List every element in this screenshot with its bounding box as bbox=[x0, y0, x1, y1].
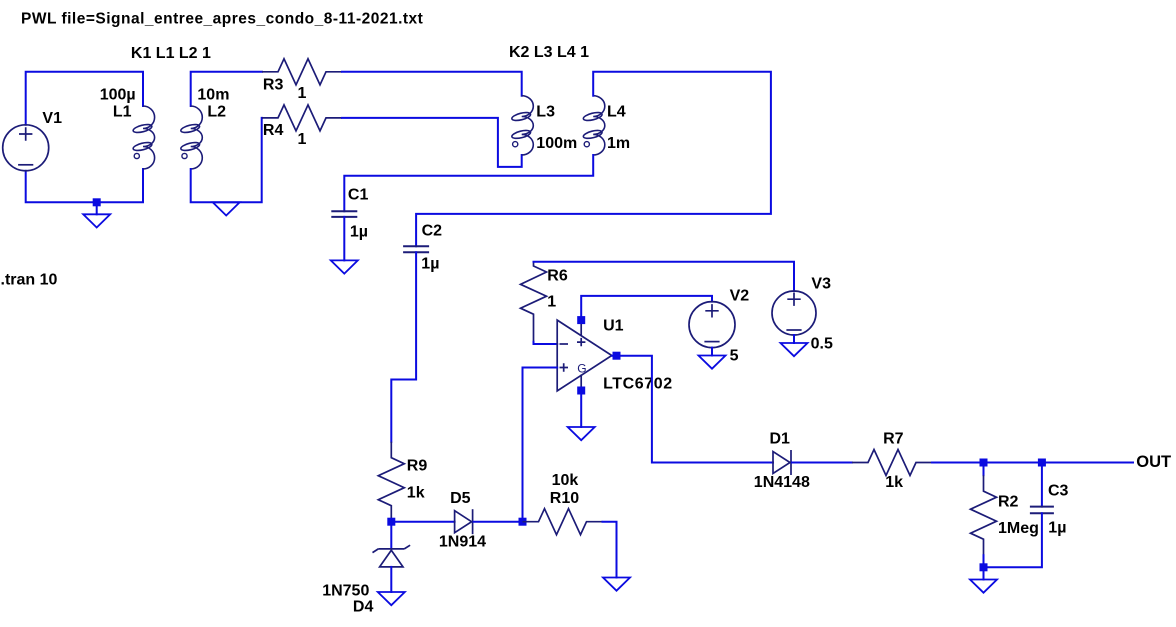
svg-text:1N914: 1N914 bbox=[439, 534, 486, 551]
junction opamp V+ pin bbox=[577, 316, 585, 324]
svg-text:L4: L4 bbox=[607, 104, 626, 121]
svg-text:G: G bbox=[577, 362, 586, 376]
svg-text:1µ: 1µ bbox=[1048, 520, 1066, 537]
wire bottom node to ground bbox=[983, 567, 985, 579]
svg-text:LTC6702: LTC6702 bbox=[603, 375, 673, 392]
svg-text:1: 1 bbox=[547, 294, 556, 311]
svg-text:1k: 1k bbox=[885, 474, 903, 491]
svg-text:R3: R3 bbox=[263, 76, 284, 93]
inductor L1 bbox=[132, 106, 154, 169]
svg-text:10m: 10m bbox=[197, 86, 229, 103]
svg-text:D4: D4 bbox=[353, 599, 374, 616]
capacitor C2 bbox=[403, 246, 429, 252]
resistor R3 bbox=[262, 59, 342, 85]
resistor R10 bbox=[523, 509, 603, 535]
ground under V1 bbox=[83, 214, 110, 227]
wire L4 bottom to C1 top bbox=[344, 155, 593, 211]
inductor L4 bbox=[583, 96, 605, 155]
svg-text:L3: L3 bbox=[536, 104, 555, 121]
resistor R7 bbox=[852, 450, 932, 476]
svg-text:1N750: 1N750 bbox=[322, 582, 369, 599]
wire R7 to OUT bbox=[932, 462, 1133, 464]
svg-text:R7: R7 bbox=[883, 430, 904, 447]
ground under L2 bbox=[213, 202, 240, 215]
resistor R2 bbox=[971, 475, 997, 555]
svg-text:5: 5 bbox=[730, 347, 739, 364]
svg-text:L2: L2 bbox=[207, 104, 226, 121]
svg-text:1k: 1k bbox=[407, 485, 425, 502]
svg-text:R9: R9 bbox=[407, 458, 428, 475]
wire opamp V+ pin to V2 top bbox=[581, 296, 712, 320]
junction V1 ground node bbox=[93, 198, 101, 206]
svg-text:1: 1 bbox=[298, 85, 307, 102]
wire junction down to D4 bbox=[390, 522, 392, 549]
svg-text:1Meg: 1Meg bbox=[998, 520, 1039, 537]
svg-text:K1 L1 L2 1: K1 L1 L2 1 bbox=[131, 45, 211, 62]
svg-text:1µ: 1µ bbox=[421, 256, 439, 273]
svg-text:1µ: 1µ bbox=[350, 224, 368, 241]
svg-text:100m: 100m bbox=[536, 135, 577, 152]
wire opamp gnd pin down bbox=[580, 391, 582, 427]
svg-text:R10: R10 bbox=[550, 490, 579, 507]
svg-text:C1: C1 bbox=[348, 187, 369, 204]
svg-text:1m: 1m bbox=[607, 135, 630, 152]
wire R10 to ground bbox=[603, 522, 617, 578]
wire C1 bottom to ground bbox=[343, 217, 345, 261]
svg-text:D1: D1 bbox=[770, 430, 791, 447]
diode D5 bbox=[455, 509, 473, 534]
inductor L3 bbox=[511, 96, 533, 155]
wire L4 top loop to C2 top bbox=[416, 72, 771, 247]
junction D5 R10 node bbox=[519, 518, 527, 526]
svg-text:R4: R4 bbox=[263, 122, 284, 139]
voltage source V3 bbox=[772, 291, 816, 335]
svg-text:R2: R2 bbox=[998, 494, 1019, 511]
junction R2 top node bbox=[980, 459, 988, 467]
voltage source V1 bbox=[3, 125, 49, 171]
junction R2 bottom node bbox=[980, 563, 988, 571]
wire V1 plus to L1 top bbox=[26, 72, 143, 125]
wire node to R2 top bbox=[983, 463, 985, 476]
wire C3 bottom to R2 bottom bbox=[984, 513, 1042, 567]
svg-text:U1: U1 bbox=[603, 317, 624, 334]
ground under D4 bbox=[378, 592, 405, 605]
svg-text:D5: D5 bbox=[450, 490, 471, 507]
zener diode D4 bbox=[373, 545, 411, 567]
ground under op-amp bbox=[568, 427, 595, 440]
diode D1 bbox=[773, 450, 791, 475]
wire V2 to ground bbox=[711, 348, 713, 356]
junction opamp gnd pin bbox=[577, 387, 585, 395]
ground under V2 bbox=[699, 356, 726, 369]
svg-text:C2: C2 bbox=[422, 223, 443, 240]
svg-text:V1: V1 bbox=[42, 110, 62, 127]
wire opamp output to D1 bbox=[612, 356, 773, 463]
resistor R6 bbox=[521, 262, 547, 342]
svg-text:L1: L1 bbox=[113, 104, 132, 121]
svg-text:100µ: 100µ bbox=[100, 86, 136, 103]
svg-text:.tran 10: .tran 10 bbox=[1, 272, 58, 289]
svg-text:0.5: 0.5 bbox=[811, 335, 833, 352]
svg-text:V3: V3 bbox=[811, 276, 831, 293]
svg-text:10k: 10k bbox=[552, 472, 579, 489]
svg-text:PWL file=Signal_entree_apres_c: PWL file=Signal_entree_apres_condo_8-11-… bbox=[21, 10, 423, 27]
resistor R9 bbox=[378, 442, 404, 522]
ground under R2 bbox=[970, 580, 997, 593]
resistor R4 bbox=[262, 105, 342, 131]
capacitor C3 bbox=[1030, 507, 1054, 514]
svg-text:K2 L3 L4 1: K2 L3 L4 1 bbox=[509, 44, 589, 61]
svg-text:R6: R6 bbox=[547, 268, 568, 285]
svg-text:V2: V2 bbox=[730, 288, 750, 305]
wire D4 anode to ground bbox=[390, 567, 392, 592]
wire R2 bottom to node bbox=[983, 555, 985, 567]
wire L1 bottom to V1 minus bbox=[26, 169, 143, 202]
wire opamp plus input from node bbox=[523, 367, 558, 369]
voltage source V2 bbox=[689, 302, 735, 348]
wire junction to D5 bbox=[391, 521, 454, 523]
wire node2 up to opamp plus input bbox=[522, 368, 524, 522]
wire D5 to node2 bbox=[474, 521, 523, 523]
ground under R10 bbox=[603, 578, 630, 591]
capacitor C1 bbox=[331, 211, 357, 217]
wire C3 top bbox=[1041, 463, 1043, 507]
svg-text:C3: C3 bbox=[1048, 483, 1069, 500]
junction R9 D4 D5 node bbox=[387, 518, 395, 526]
ground under V3 bbox=[781, 343, 808, 356]
wire D1 to R7 bbox=[792, 462, 852, 464]
svg-text:1N4148: 1N4148 bbox=[754, 474, 810, 491]
wire R6 bottom to opamp inverting input bbox=[534, 342, 558, 344]
svg-text:1: 1 bbox=[298, 131, 307, 148]
junction opamp output bbox=[613, 352, 621, 360]
wire R4 to L3 bottom bbox=[342, 118, 522, 167]
wire R3 to L3 top bbox=[342, 72, 522, 96]
wire C2 bottom to R9 top bbox=[391, 252, 416, 442]
svg-text:OUT: OUT bbox=[1136, 453, 1171, 471]
wire V3 to ground bbox=[793, 335, 795, 343]
junction C3 top node bbox=[1038, 459, 1046, 467]
ground under C1 bbox=[331, 260, 358, 273]
inductor L2 bbox=[180, 106, 202, 169]
wire L2 top to R3 bbox=[191, 72, 262, 106]
wire R6 top to V3 top bbox=[534, 262, 795, 291]
wire L2 bottom to R4 bbox=[191, 118, 262, 202]
op-amp U1 body bbox=[557, 320, 612, 391]
wire ground stem under V1 bbox=[96, 202, 98, 214]
